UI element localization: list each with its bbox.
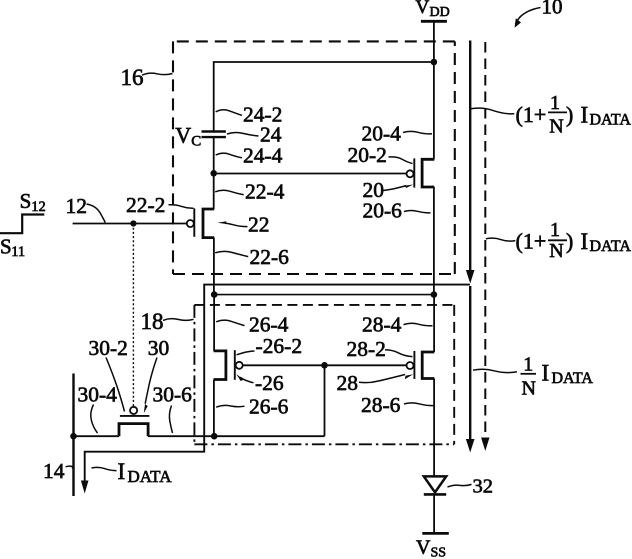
svg-text:24-4: 24-4 — [243, 144, 283, 168]
leader arrow 20 — [383, 186, 406, 191]
junction node B left — [211, 291, 218, 298]
svg-text:-26-2: -26-2 — [256, 334, 303, 358]
wire gate node drop — [324, 365, 326, 436]
transistor 30 gate bubble — [130, 407, 137, 414]
current flow line dashed — [484, 42, 486, 438]
transistor 26 gate bubble — [236, 362, 243, 369]
wire node B to 28 drain — [433, 295, 435, 352]
svg-text:10: 10 — [542, 0, 563, 19]
power bar VDD — [421, 20, 447, 23]
dash-dot box 18 (mirror block lower) — [194, 304, 454, 306]
svg-text:26-6: 26-6 — [249, 394, 289, 418]
svg-text:1: 1 — [523, 354, 533, 376]
leader IDATA — [92, 467, 117, 470]
leader 14 — [66, 466, 74, 469]
leader 24 — [227, 133, 259, 136]
svg-text:N: N — [521, 378, 535, 400]
junction node cap/gate20 — [210, 170, 217, 177]
leader 20-6 — [404, 210, 431, 212]
svg-text:I: I — [581, 102, 589, 127]
svg-text:-26: -26 — [255, 371, 284, 395]
wire scan line 12 (gate of 22) — [73, 223, 187, 225]
junction node data line / switch 30 — [70, 433, 77, 440]
transistor 20 gate bubble — [407, 170, 414, 177]
leader (1+1/N)IDATA lower — [486, 238, 516, 241]
transistor 28 gate bar — [413, 351, 415, 379]
leader 12 — [87, 204, 106, 223]
leader 22-6 — [215, 251, 248, 256]
junction gate node — [321, 362, 328, 369]
transistor 26 gate bar — [234, 350, 236, 380]
svg-text:DATA: DATA — [590, 112, 632, 129]
leader 20-2 — [389, 157, 413, 164]
leader arrow 26 — [240, 377, 254, 383]
svg-text:S: S — [0, 234, 12, 258]
svg-text:N: N — [549, 240, 563, 262]
svg-text:28-6: 28-6 — [361, 393, 401, 417]
svg-text:N: N — [549, 115, 563, 137]
transistor 22 gate bubble — [187, 220, 194, 227]
svg-text:11: 11 — [11, 244, 25, 260]
svg-text:18: 18 — [141, 309, 164, 334]
wire VDD stem — [433, 21, 435, 62]
arrow IDATA direction — [81, 481, 89, 494]
leader 32 — [448, 484, 472, 487]
svg-text:V: V — [416, 0, 430, 18]
svg-text:28-4: 28-4 — [362, 313, 402, 337]
leader 24-2 — [216, 110, 242, 116]
svg-text:S: S — [20, 189, 32, 213]
leader 1/N IDATA — [473, 369, 517, 372]
svg-text:I: I — [542, 360, 550, 385]
wire cap bottom to 22 drain — [213, 137, 215, 209]
svg-text:28-2: 28-2 — [347, 337, 386, 361]
wire B (mirror node rail) — [214, 294, 434, 296]
leader 30-2 — [106, 358, 125, 412]
svg-text:12: 12 — [31, 199, 46, 215]
leader 20-4 — [403, 131, 432, 134]
svg-text:16: 16 — [121, 65, 144, 90]
wire gate rail 26-28 — [243, 364, 407, 366]
dashed box 16 (current mirror block) — [173, 40, 455, 42]
svg-text:22-2: 22-2 — [126, 193, 165, 217]
leader (1+1/N)IDATA upper — [471, 108, 515, 114]
svg-text:1: 1 — [550, 92, 560, 114]
svg-text:): ) — [566, 102, 573, 127]
leader 28-4 — [404, 323, 433, 326]
wire gate drop to switch 30 — [132, 224, 134, 407]
wire 20 drain down — [433, 187, 435, 295]
wire 26 source down — [213, 380, 215, 437]
svg-text:DD: DD — [430, 5, 450, 20]
wire switch 30 right — [148, 435, 214, 437]
label 1/N IDATA — [521, 354, 593, 400]
svg-text:SS: SS — [431, 546, 447, 559]
wire gate of 20 — [214, 173, 407, 175]
svg-text:(1+: (1+ — [516, 102, 547, 127]
svg-text:30-6: 30-6 — [153, 383, 193, 407]
leader arrow 30 — [145, 358, 157, 404]
transistor 30 channel bracket (switch) — [119, 424, 148, 437]
leader arrow 28 — [359, 375, 405, 383]
transistor 22 channel bracket — [203, 209, 214, 238]
svg-text:30: 30 — [148, 336, 170, 360]
svg-text:12: 12 — [66, 194, 88, 218]
junction node B right — [431, 291, 438, 298]
svg-text:14: 14 — [43, 459, 65, 483]
svg-text:): ) — [566, 229, 573, 254]
svg-text:32: 32 — [473, 475, 494, 497]
junction node on line 12 — [130, 220, 136, 226]
leader 26-4 — [216, 320, 244, 325]
transistor 26 channel bracket — [214, 351, 226, 380]
leader 26-2 — [237, 351, 255, 355]
svg-text:30-2: 30-2 — [89, 336, 128, 360]
leader 16 — [142, 73, 173, 75]
diode 32 (OLED) — [424, 476, 446, 492]
wire 22 source down to node B — [213, 238, 215, 295]
svg-text:20-6: 20-6 — [363, 199, 403, 223]
transistor 20 gate bar — [413, 158, 415, 187]
label (1+1/N)IDATA upper — [516, 92, 632, 137]
transistor 30 gate bar — [120, 415, 149, 417]
svg-text:20-2: 20-2 — [348, 143, 387, 167]
svg-text:DATA: DATA — [128, 467, 173, 486]
svg-text:(1+: (1+ — [516, 229, 547, 254]
svg-text:I: I — [581, 229, 589, 254]
leader 28-6 — [404, 403, 434, 406]
current flow line solid (1+1/N)IDATA — [469, 41, 471, 273]
label (1+1/N)IDATA lower — [516, 219, 632, 262]
svg-text:22-4: 22-4 — [245, 180, 285, 204]
wire data line 14 — [72, 374, 74, 497]
leader 24-4 — [216, 153, 242, 158]
wire bottom gate tie — [214, 435, 324, 437]
svg-text:26-4: 26-4 — [249, 313, 289, 337]
leader arrow 10 — [516, 8, 541, 25]
svg-text:28: 28 — [337, 371, 359, 395]
leader 30-4 — [91, 405, 98, 434]
leader 22-4 — [215, 190, 244, 195]
wire top rail — [214, 62, 434, 131]
wire diode to VSS — [433, 494, 435, 533]
svg-text:30-4: 30-4 — [78, 383, 118, 407]
leader 28-2 — [385, 350, 413, 357]
svg-text:V: V — [175, 123, 191, 148]
leader 30-6 — [169, 406, 172, 434]
leader arrow 22 — [225, 223, 248, 226]
capacitor 24 (VC storage cap) — [202, 130, 226, 132]
junction bottom node — [211, 433, 218, 440]
svg-text:1: 1 — [550, 219, 560, 241]
svg-text:V: V — [416, 537, 431, 559]
svg-text:C: C — [191, 134, 201, 150]
wire 28 source to diode — [433, 379, 435, 477]
transistor 28 gate bubble — [407, 362, 414, 369]
wire A (current path to data line) — [85, 285, 470, 482]
svg-text:22-6: 22-6 — [250, 245, 290, 269]
wire switch 30 left — [74, 435, 120, 437]
leader 18 — [163, 319, 194, 321]
transistor 28 channel bracket — [422, 352, 434, 379]
wire VDD to 20 source — [433, 62, 435, 159]
svg-text:DATA: DATA — [552, 370, 594, 387]
power bar VSS — [422, 532, 449, 535]
transistor 20 channel bracket — [422, 159, 434, 187]
wire node B to 26 drain — [213, 295, 215, 351]
junction VDD node — [431, 59, 438, 66]
transistor 22 gate bar — [193, 208, 195, 236]
svg-text:I: I — [118, 459, 126, 484]
svg-text:22: 22 — [248, 212, 270, 236]
leader 22-2 — [169, 205, 194, 209]
leader 26-6 — [216, 405, 244, 407]
svg-text:DATA: DATA — [590, 238, 632, 255]
